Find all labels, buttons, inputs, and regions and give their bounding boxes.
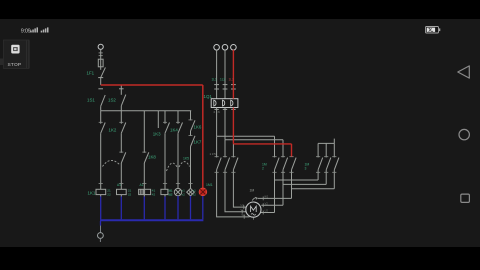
breaker Q1 box xyxy=(211,99,238,108)
blue drop A xyxy=(100,196,102,219)
svg-text:42: 42 xyxy=(152,192,156,196)
stub wire node N1 xyxy=(157,111,159,128)
breaker Q1 pole D glyphs xyxy=(214,100,233,106)
rung F contact1 blade xyxy=(191,120,196,131)
star pole3 wire xyxy=(333,143,335,157)
svg-text:1S2: 1S2 xyxy=(108,98,116,103)
rung E contact blade xyxy=(178,123,183,134)
wire fuse to switch xyxy=(100,67,102,70)
delta feed wire1 down xyxy=(274,136,276,157)
star contactor Q4 blade2 xyxy=(326,158,331,170)
svg-text:1 3 5: 1 3 5 xyxy=(210,152,217,156)
wire Q0 to red rail xyxy=(100,78,102,85)
branch pole2 to delta feed xyxy=(225,139,283,141)
blue drop G xyxy=(202,196,204,219)
wire L1 down xyxy=(216,50,218,99)
wire Q2 pole3 bend xyxy=(233,170,246,207)
fuse F1 xyxy=(98,59,103,67)
pushbutton S2 blade xyxy=(121,95,126,106)
wire pole3 to contact xyxy=(232,144,234,158)
coil K1 stub xyxy=(100,195,102,197)
wire Q2 pole1 bend xyxy=(217,170,250,217)
mech linkage arc EF xyxy=(179,162,190,167)
green labels xyxy=(87,71,310,197)
rung B contact1 blade xyxy=(121,123,126,134)
blue drop F xyxy=(190,196,192,219)
rung B wire to coil K2 xyxy=(120,163,122,189)
coil K1 xyxy=(96,189,106,194)
svg-text:1K7: 1K7 xyxy=(194,140,202,145)
svg-text:W2: W2 xyxy=(264,195,268,199)
branch pole1 to delta feed xyxy=(217,135,275,137)
ladder contact ticks xyxy=(99,120,193,152)
svg-text:A1: A1 xyxy=(117,183,121,187)
nav recents square xyxy=(461,194,470,202)
wire X1 to fuse xyxy=(100,49,102,59)
svg-text:1M1: 1M1 xyxy=(206,183,213,187)
rung E wire from rail xyxy=(177,111,179,124)
motor terminal ticks xyxy=(242,197,263,219)
svg-text:22: 22 xyxy=(107,192,111,196)
star contactor Q4 blade1 xyxy=(318,158,323,170)
star contactor Q4 blade3 xyxy=(334,158,339,170)
lamp H2 energized xyxy=(199,188,207,196)
heater element E1 xyxy=(139,189,144,194)
terminal X2 stub xyxy=(99,238,101,242)
svg-text:1M: 1M xyxy=(250,188,255,192)
svg-text:x2: x2 xyxy=(169,192,173,196)
coil pin ticks xyxy=(99,183,193,185)
svg-text:1L2: 1L2 xyxy=(220,78,226,82)
motor wire V2 horizontal xyxy=(261,204,283,206)
wire pole2 down xyxy=(224,108,226,140)
pin ticks below breaker xyxy=(214,108,235,110)
svg-text:1K5: 1K5 xyxy=(183,157,189,161)
contactor pole ticks xyxy=(215,157,337,173)
svg-text:9:09: 9:09 xyxy=(21,28,31,34)
wire pole1 to contact xyxy=(216,136,218,157)
motor wire U2 horizontal xyxy=(261,212,275,214)
svg-text:2 4 6: 2 4 6 xyxy=(214,110,221,114)
coil K3 xyxy=(145,189,151,194)
lamp H1 xyxy=(174,188,181,195)
svg-text:1F1: 1F1 xyxy=(87,71,95,76)
svg-text:1K6: 1K6 xyxy=(194,125,202,130)
svg-text:3: 3 xyxy=(305,167,307,171)
delta contactor Q3 blade1 xyxy=(275,158,280,170)
rung F wire from rail xyxy=(190,111,192,121)
svg-text:1K4: 1K4 xyxy=(170,128,178,133)
wire pole2 to contact xyxy=(224,140,226,158)
terminal ticks X1 xyxy=(99,53,103,56)
wire Q2 pole2 bend xyxy=(225,170,246,212)
wire Q4 pole3 down xyxy=(333,170,335,189)
indicator P1 diamond xyxy=(187,188,195,196)
disconnect switch Q0 tick xyxy=(98,77,103,79)
rung F wire to indicator P1 xyxy=(190,147,192,189)
svg-text:U2: U2 xyxy=(265,209,269,213)
bottom terminal wire xyxy=(100,225,102,232)
blue drop D xyxy=(164,196,166,219)
signal icon SIM2 xyxy=(41,27,49,32)
main contactor Q2 blade2 xyxy=(225,158,230,170)
red drop to Q3 pole3 xyxy=(291,144,293,157)
pushbutton S1 blade xyxy=(101,95,106,106)
battery icon xyxy=(426,27,441,34)
wire pole1 down xyxy=(216,108,218,137)
blue drop E xyxy=(177,196,179,220)
rung B tick xyxy=(119,88,124,90)
svg-text:32: 32 xyxy=(128,192,132,196)
rung B wire crossing rail xyxy=(120,106,122,124)
link wire W2 xyxy=(292,188,335,190)
star bar xyxy=(318,142,334,144)
star bar stub xyxy=(333,139,335,144)
wire Q4 pole2 down xyxy=(325,170,327,185)
rung C wire from rail xyxy=(143,111,145,153)
motor rotation arrow xyxy=(252,197,257,200)
wire Q3 pole2 down xyxy=(282,170,284,205)
terminal L1 xyxy=(214,45,220,51)
STOP button icon xyxy=(11,45,19,54)
rung C contact blade xyxy=(144,152,149,163)
delta feed wire2 down xyxy=(282,140,284,158)
pushbutton S1 tick xyxy=(98,88,103,90)
terminal L2 xyxy=(222,45,228,51)
wire pole3 down red xyxy=(232,108,234,144)
STOP button panel xyxy=(4,40,30,69)
red rail L+ xyxy=(101,84,203,86)
rung C wire to coil K3 xyxy=(143,163,145,189)
rung A contact blade xyxy=(101,123,106,134)
wire Q3 pole3 down xyxy=(291,170,293,199)
signal icon SIM1 xyxy=(30,27,38,32)
rung B wire from red rail xyxy=(120,85,122,95)
svg-text:1K8: 1K8 xyxy=(148,155,156,160)
nav back triangle xyxy=(458,66,470,78)
coil K4 xyxy=(161,189,168,194)
rung D wire from rail xyxy=(164,111,166,124)
coil K2 stub xyxy=(120,195,122,197)
terminal X1 top xyxy=(98,44,103,49)
link wire V2 xyxy=(283,183,326,185)
wire Q4 pole1 down xyxy=(317,170,319,180)
rail R2 horizontal xyxy=(101,110,192,112)
rung A wire to coil K1 xyxy=(100,133,102,189)
red rung G wire xyxy=(202,85,204,188)
STOP panel edge lines xyxy=(26,41,28,69)
svg-text:STOP: STOP xyxy=(8,62,22,68)
terminal L3 xyxy=(231,45,237,51)
rung E wire to lamp H1 xyxy=(177,133,179,188)
svg-text:2: 2 xyxy=(262,167,264,171)
svg-text:A1: A1 xyxy=(140,183,144,187)
terminal X2 bottom xyxy=(98,233,104,239)
coil K2 xyxy=(117,189,127,194)
mech linkage arc AB xyxy=(103,160,120,166)
wire L3 down red xyxy=(232,50,234,99)
star pole2 wire xyxy=(325,143,327,157)
motor M1 circle xyxy=(246,202,261,217)
branch pole3 red horizontal xyxy=(233,143,291,145)
rung D wire to coil K4 xyxy=(164,133,166,189)
main contactor Q2 blade3 xyxy=(233,158,238,170)
wire L2 down xyxy=(224,50,226,99)
blue drop C xyxy=(143,196,145,219)
rung F wire mid xyxy=(190,131,192,136)
disconnect switch Q0 blade xyxy=(101,67,106,77)
svg-text:1Q1: 1Q1 xyxy=(204,94,213,99)
star pole1 wire xyxy=(317,143,319,157)
svg-text:x2: x2 xyxy=(193,192,197,196)
mech linkage arc DE xyxy=(167,163,178,171)
rung A wire below rail xyxy=(100,111,102,124)
delta contactor Q3 blade2 xyxy=(283,158,288,170)
wire S1 to rail R2 xyxy=(100,106,102,111)
svg-text:1K1: 1K1 xyxy=(88,191,96,196)
svg-text:W1: W1 xyxy=(242,213,246,217)
rung D contact blade xyxy=(165,123,170,134)
svg-text:U1: U1 xyxy=(241,203,245,207)
svg-text:1L3: 1L3 xyxy=(229,78,235,82)
coil K3 stub xyxy=(143,195,145,197)
delta contactor Q3 blade3 xyxy=(292,158,297,170)
rung B contact2 blade xyxy=(121,152,126,163)
main contactor Q2 blade1 xyxy=(217,158,222,170)
svg-text:1K2: 1K2 xyxy=(109,128,117,133)
motor M1 label xyxy=(251,206,257,215)
clamp ticks row1 xyxy=(214,84,236,86)
svg-text:1L1: 1L1 xyxy=(212,78,218,82)
motor wire W2 horizontal xyxy=(258,197,292,199)
blue drop B xyxy=(120,196,122,219)
link wire U2 xyxy=(275,179,319,181)
coil K4 stub xyxy=(164,195,166,197)
nav home circle xyxy=(459,129,469,139)
motor bottom stub xyxy=(252,217,254,220)
blue bus N xyxy=(100,219,203,221)
svg-text:1K3: 1K3 xyxy=(153,132,161,137)
wire Q3 pole1 down xyxy=(274,170,276,213)
drawer handle notch xyxy=(0,59,3,66)
rung F contact2 blade xyxy=(191,136,196,147)
svg-text:V2: V2 xyxy=(265,201,269,205)
rung B wire mid xyxy=(120,133,122,153)
svg-text:V1: V1 xyxy=(241,208,245,212)
blue drop A tail xyxy=(100,221,102,226)
svg-text:1S1: 1S1 xyxy=(87,98,95,103)
svg-text:x2: x2 xyxy=(182,192,186,196)
motor terminal labels xyxy=(241,195,269,218)
clamp ticks row2 xyxy=(214,88,236,90)
